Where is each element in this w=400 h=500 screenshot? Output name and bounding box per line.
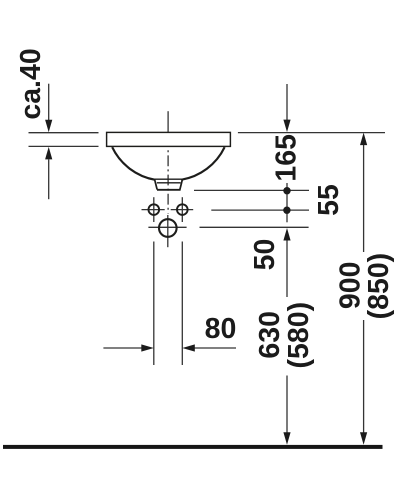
svg-text:900: 900 (335, 262, 367, 310)
svg-text:55: 55 (313, 184, 345, 216)
svg-text:ca.40: ca.40 (15, 48, 47, 119)
svg-text:165: 165 (270, 134, 302, 182)
svg-text:(580): (580) (283, 302, 315, 369)
svg-text:630: 630 (254, 311, 286, 359)
svg-text:(850): (850) (363, 253, 395, 320)
svg-text:50: 50 (249, 239, 281, 271)
svg-text:80: 80 (205, 313, 237, 345)
